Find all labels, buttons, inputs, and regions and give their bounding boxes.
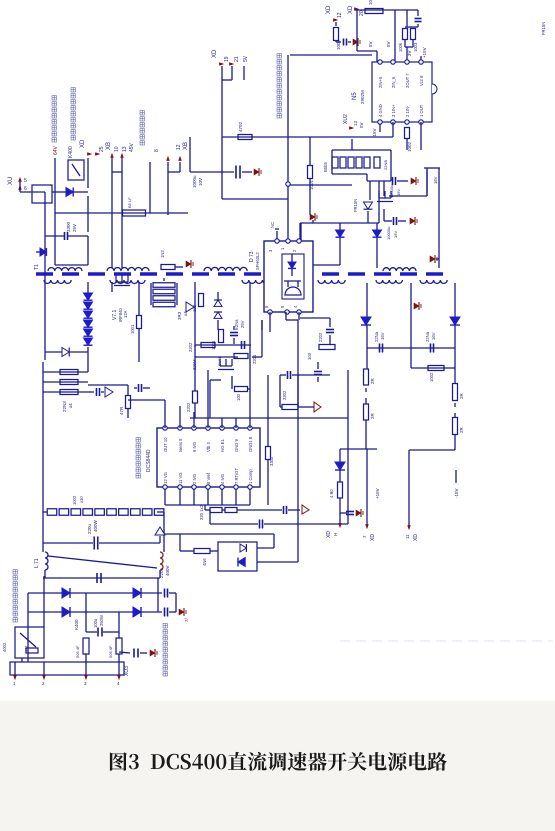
svg-text:2R: 2R xyxy=(370,377,375,384)
svg-text:6: 6 xyxy=(24,186,27,192)
svg-text:3302: 3302 xyxy=(269,456,274,466)
svg-text:2IN_6: 2IN_6 xyxy=(391,76,396,88)
svg-text:103: 103 xyxy=(307,352,312,360)
svg-text:OUT 10: OUT 10 xyxy=(163,437,168,452)
svg-text:16V: 16V xyxy=(396,189,401,196)
svg-text:5V: 5V xyxy=(359,122,364,128)
svg-text:16V: 16V xyxy=(393,231,398,238)
svg-text:1 OUT: 1 OUT xyxy=(419,104,424,117)
svg-text:21: 21 xyxy=(234,56,240,62)
svg-text:8 Vref: 8 Vref xyxy=(206,472,211,484)
svg-text:IvG E1: IvG E1 xyxy=(220,439,225,452)
svg-text:7/: 7/ xyxy=(184,617,189,622)
svg-text:6 IvG: 6 IvG xyxy=(192,442,197,452)
svg-text:19: 19 xyxy=(224,56,230,62)
svg-text:B5 LF: B5 LF xyxy=(127,197,132,208)
svg-text:XD: XD xyxy=(326,531,332,538)
svg-text:Vcc 8: Vcc 8 xyxy=(419,75,424,86)
svg-text:1N2: 1N2 xyxy=(160,250,165,258)
svg-text:10000u: 10000u xyxy=(386,227,391,240)
svg-text:H: H xyxy=(333,533,338,536)
svg-text:4 B0: 4 B0 xyxy=(329,489,334,498)
svg-text:22Na: 22Na xyxy=(374,331,379,342)
svg-text:FR15N: FR15N xyxy=(353,199,358,212)
svg-text:12: 12 xyxy=(337,12,343,18)
svg-text:2 1IN-: 2 1IN- xyxy=(405,105,410,117)
svg-text:2202: 2202 xyxy=(318,332,323,342)
svg-text:12 VG: 12 VG xyxy=(163,472,168,484)
svg-text:13: 13 xyxy=(122,146,128,152)
svg-text:12: 12 xyxy=(176,144,182,150)
svg-text:2IN+5: 2IN+5 xyxy=(378,76,383,88)
svg-text:XU2: XU2 xyxy=(343,114,349,124)
svg-text:-15V: -15V xyxy=(372,128,377,138)
svg-text:2202: 2202 xyxy=(188,342,193,352)
svg-text:2R: 2R xyxy=(459,426,464,433)
svg-text:22Na: 22Na xyxy=(425,331,430,342)
svg-text:5V: 5V xyxy=(243,55,249,62)
svg-text:100k: 100k xyxy=(398,42,403,52)
svg-text:11: 11 xyxy=(405,534,410,539)
svg-text:16V: 16V xyxy=(431,332,436,340)
svg-text:16V: 16V xyxy=(380,332,385,340)
svg-text:2 IvG: 2 IvG xyxy=(192,474,197,484)
svg-text:2202: 2202 xyxy=(186,402,191,412)
svg-text:3V: 3V xyxy=(407,50,412,56)
svg-text:N5: N5 xyxy=(352,92,358,100)
svg-text:XO3: XO3 xyxy=(124,666,130,676)
svg-text:25V: 25V xyxy=(72,224,77,232)
svg-text:1002: 1002 xyxy=(72,495,77,505)
svg-text:1 Comp: 1 Comp xyxy=(248,469,253,484)
svg-text:+15V: +15V xyxy=(375,488,380,499)
svg-text:250W: 250W xyxy=(99,615,104,626)
svg-text:1001: 1001 xyxy=(130,324,135,334)
svg-text:7 RT/GT: 7 RT/GT xyxy=(234,468,239,484)
svg-text:100: 100 xyxy=(236,393,241,401)
svg-text:XD: XD xyxy=(326,5,332,14)
svg-text:XB: XB xyxy=(106,142,112,150)
svg-text:2: 2 xyxy=(42,681,45,686)
svg-text:XB: XB xyxy=(183,142,189,150)
svg-text:1000u: 1000u xyxy=(192,175,197,188)
svg-text:22N3: 22N3 xyxy=(62,401,67,412)
svg-text:4 GND: 4 GND xyxy=(378,104,383,117)
svg-text:2201: 2201 xyxy=(252,354,257,364)
svg-text:GND 9: GND 9 xyxy=(234,439,239,452)
svg-text:1: 1 xyxy=(13,681,16,686)
svg-text:K400: K400 xyxy=(68,146,74,158)
svg-text:SUM: SUM xyxy=(217,357,222,366)
svg-text:64V: 64V xyxy=(53,145,59,155)
svg-text:220u: 220u xyxy=(87,523,92,534)
svg-text:10: 10 xyxy=(114,146,120,152)
svg-text:XD: XD xyxy=(348,5,354,14)
svg-text:3: 3 xyxy=(84,681,87,686)
svg-text:Isens 5: Isens 5 xyxy=(178,438,183,452)
svg-text:22NB: 22NB xyxy=(383,160,388,170)
svg-text:47R: 47R xyxy=(119,406,124,415)
svg-text:5: 5 xyxy=(24,178,27,184)
svg-text:DCS844D: DCS844D xyxy=(146,449,152,472)
svg-text:100u: 100u xyxy=(93,618,98,628)
svg-text:3300: 3300 xyxy=(66,221,71,232)
svg-text:4002: 4002 xyxy=(2,642,7,652)
svg-text:25V: 25V xyxy=(240,320,245,328)
svg-text:16V: 16V xyxy=(433,176,438,184)
svg-text:XD: XD xyxy=(413,534,419,541)
svg-text:400V: 400V xyxy=(165,565,170,576)
svg-text:505 4F: 505 4F xyxy=(75,645,80,658)
svg-text:4 IvG: 4 IvG xyxy=(220,474,225,484)
svg-text:XD: XD xyxy=(212,49,218,58)
svg-text:5V: 5V xyxy=(386,41,391,47)
svg-text:B5b5: B5b5 xyxy=(323,162,328,172)
svg-text:1002: 1002 xyxy=(368,0,373,5)
svg-text:11 VG: 11 VG xyxy=(178,472,183,484)
svg-text:7: 7 xyxy=(362,535,367,538)
svg-text:x10: x10 xyxy=(79,496,84,503)
svg-text:2202: 2202 xyxy=(282,390,287,400)
svg-text:20: 20 xyxy=(359,10,365,16)
svg-text:4: 4 xyxy=(117,681,120,686)
svg-text:8: 8 xyxy=(154,149,160,152)
svg-text:4N6: 4N6 xyxy=(202,558,207,566)
svg-text:E2Na: E2Na xyxy=(234,319,239,330)
svg-text:GND1 8: GND1 8 xyxy=(248,436,253,452)
svg-text:2OUT 7: 2OUT 7 xyxy=(405,73,410,88)
svg-text:T1: T1 xyxy=(34,264,40,270)
svg-text:5V: 5V xyxy=(368,41,373,47)
svg-text:3R3: 3R3 xyxy=(177,311,182,320)
svg-text:SFH60L2: SFH60L2 xyxy=(255,252,260,270)
svg-text:1002: 1002 xyxy=(407,141,412,152)
svg-text:25: 25 xyxy=(99,146,105,152)
svg-text:1002: 1002 xyxy=(336,39,341,50)
svg-text:10V: 10V xyxy=(198,178,203,186)
svg-text:FR15N: FR15N xyxy=(541,22,546,35)
svg-text:2R: 2R xyxy=(459,392,464,399)
svg-text:220 1x2: 220 1x2 xyxy=(199,504,204,520)
svg-text:K400: K400 xyxy=(74,619,79,630)
svg-text:2R: 2R xyxy=(370,412,375,419)
svg-text:12A: 12A xyxy=(123,310,128,318)
svg-text:1003: 1003 xyxy=(413,42,418,52)
svg-text:L 71: L 71 xyxy=(34,558,40,568)
svg-text:XU: XU xyxy=(8,177,14,185)
svg-text:XD: XD xyxy=(80,139,86,148)
svg-text:3 1IN+: 3 1IN+ xyxy=(391,104,396,117)
svg-text:2902M: 2902M xyxy=(360,90,365,104)
svg-text:XD: XD xyxy=(370,534,376,541)
svg-text:400W: 400W xyxy=(93,519,98,532)
svg-text:4702: 4702 xyxy=(238,121,243,132)
svg-text:1002: 1002 xyxy=(429,372,434,382)
svg-text:Vfb 3: Vfb 3 xyxy=(206,442,211,452)
svg-text:NC: NC xyxy=(270,222,275,228)
svg-text:x4: x4 xyxy=(68,403,73,408)
svg-text:-15V: -15V xyxy=(454,488,459,498)
svg-text:45V: 45V xyxy=(129,142,135,152)
svg-text:505 4F: 505 4F xyxy=(108,645,113,658)
svg-text:13: 13 xyxy=(353,120,358,126)
svg-text:+15V: +15V xyxy=(422,47,427,58)
